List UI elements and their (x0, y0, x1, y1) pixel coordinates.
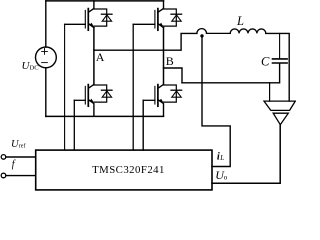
transistor Q1 emitter (88, 24, 94, 28)
transistor Q3 emitter (88, 100, 94, 117)
transistor Q1 top-left IGBT: gate lead (65, 23, 86, 25)
wire U_o feedback to DSP (212, 125, 280, 184)
terminal f circle (1, 173, 6, 178)
capacitor C top lead (279, 33, 281, 58)
diode D4 cathode bar (171, 89, 182, 91)
diode D1 cathode bar (101, 13, 112, 15)
DC source minus sign (42, 62, 48, 64)
capacitor C plates (273, 59, 288, 63)
wire hump to inductor (207, 32, 231, 34)
transistor Q4 body bar (157, 85, 159, 107)
wire Q2 gate drive down to DSP (132, 24, 134, 150)
wire bottom DC bus (46, 115, 164, 117)
wire f input (6, 175, 36, 177)
wire load left lead (269, 83, 271, 101)
wire Q3 gate drive down to DSP (73, 100, 75, 150)
junction dot i_L tap (200, 34, 203, 37)
diode D4 triangle (172, 91, 181, 97)
svg-text:A: A (96, 50, 105, 64)
wire DC source positive lead (45, 1, 47, 47)
inductor L (230, 29, 266, 33)
wire right bridge leg (node B) (163, 28, 165, 85)
wire B rail to capacitor (182, 64, 280, 83)
transistor Q1 emitter arrow (89, 23, 93, 27)
transistor Q3 bottom-left IGBT: gate lead (74, 99, 85, 101)
svg-text:C: C (261, 55, 270, 69)
svg-text:f: f (12, 159, 16, 170)
transistor Q4 collector (158, 85, 164, 89)
transistor Q2 collector (158, 1, 164, 12)
diode D2 cathode bar (171, 13, 182, 15)
transistor Q4 emitter (158, 100, 164, 117)
wire Q4 gate drive down to DSP (142, 100, 144, 150)
transistor Q3 body bar (87, 85, 89, 107)
wire diode D1 loop (94, 9, 107, 26)
svg-text:o: o (224, 173, 228, 181)
wire current-sense hump (197, 29, 207, 34)
transistor Q2 top-right IGBT: gate lead (133, 23, 155, 25)
wire Q1 gate drive down to DSP (64, 24, 66, 150)
transistor Q4 gate bar (154, 86, 156, 104)
wire diode D3 loop (94, 85, 107, 102)
DC source U_DC circle (36, 47, 57, 68)
wire node B tap step (164, 68, 183, 83)
svg-text:ref: ref (19, 142, 26, 149)
transistor Q2 emitter (158, 24, 164, 28)
load trapezoid (264, 101, 295, 110)
svg-text:TMSC320F241: TMSC320F241 (92, 164, 165, 176)
wire diode D4 loop (164, 85, 177, 102)
transistor Q3 emitter arrow (89, 99, 93, 103)
svg-text:L: L (219, 154, 224, 162)
wire node A to output riser (94, 33, 197, 50)
wire diode D2 loop (164, 9, 177, 26)
diode D2 triangle (172, 15, 181, 21)
transistor Q2 body bar (157, 9, 159, 31)
transistor Q1 body bar (87, 9, 89, 31)
wire inductor to output corner down to load (266, 33, 289, 101)
diode D3 triangle (102, 91, 111, 97)
transistor Q2 gate bar (154, 10, 156, 28)
terminal U_ref circle (1, 155, 6, 160)
DC source plus sign (42, 49, 48, 55)
wire U_ref input (6, 156, 36, 158)
wire left bridge leg (node A) (93, 28, 95, 85)
diode D1 triangle (102, 15, 111, 21)
transistor Q4 bottom-right IGBT: gate lead (143, 99, 155, 101)
transistor Q2 emitter arrow (159, 23, 163, 27)
wire i_L sense down to DSP (202, 36, 230, 167)
svg-text:L: L (236, 14, 244, 28)
transistor Q4 emitter arrow (159, 99, 163, 103)
wire DC source negative lead (45, 68, 47, 117)
transistor Q1 collector (88, 1, 94, 12)
DSP block TMSC320F241 (36, 150, 212, 190)
svg-text:B: B (166, 54, 174, 68)
transistor Q3 gate bar (84, 86, 86, 104)
svg-text:DC: DC (30, 64, 39, 71)
transistor Q1 gate bar (84, 10, 86, 28)
load triangle (273, 113, 288, 125)
wire top DC bus (46, 0, 164, 2)
diode D3 cathode bar (101, 89, 112, 91)
transistor Q3 collector (88, 85, 94, 89)
